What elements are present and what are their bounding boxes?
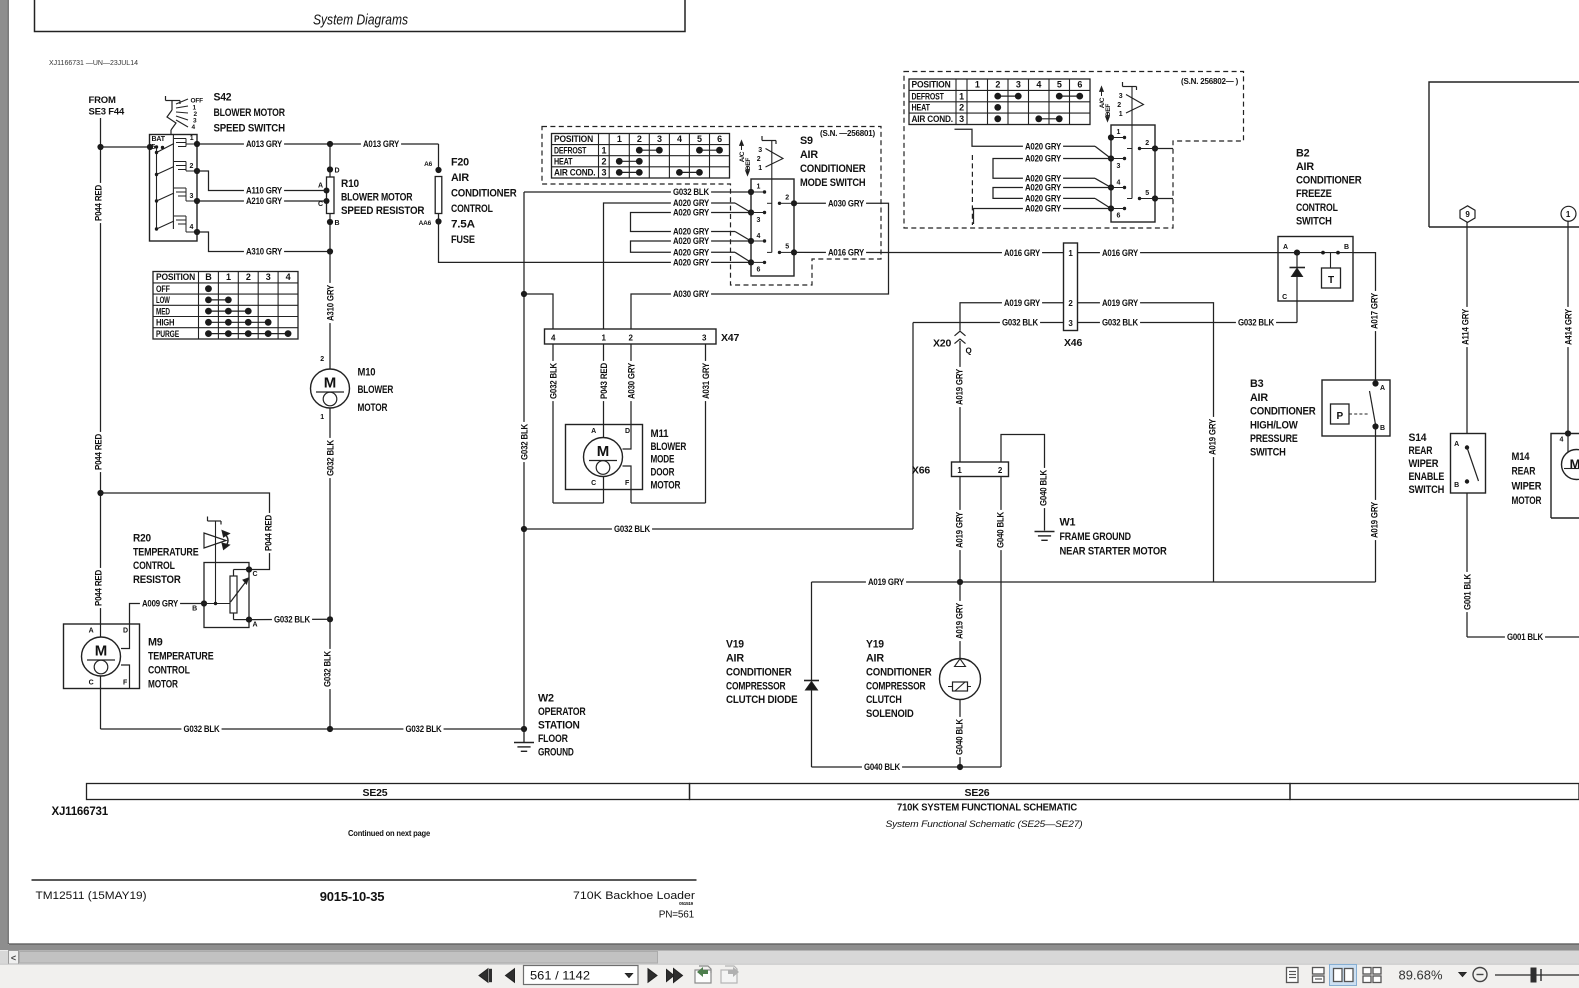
switch S42 rotary symbol [166, 100, 181, 102]
toolbar scrolling icon [1313, 968, 1325, 975]
wire S9 late A020 U pin4-pin6 [993, 188, 1111, 199]
svg-text:2: 2 [637, 134, 642, 144]
terminal S9 late pin1 [1108, 134, 1114, 140]
svg-text:M: M [1570, 457, 1579, 472]
wire M11 C to G032 [603, 477, 605, 504]
wire G032 BLK main vertical [523, 192, 525, 729]
svg-text:X20: X20 [933, 338, 951, 350]
svg-text:G032 BLK: G032 BLK [1002, 318, 1039, 328]
svg-text:2: 2 [757, 156, 761, 163]
svg-text:TEMPERATURE: TEMPERATURE [148, 651, 214, 663]
svg-text:1: 1 [226, 272, 231, 282]
svg-text:A: A [591, 428, 596, 435]
terminal S9 late pin6 [1108, 205, 1114, 211]
terminal S9 early pin2 [791, 200, 797, 206]
wire A019 GRY horizontal [812, 581, 1376, 583]
svg-text:B: B [205, 272, 212, 282]
wire B2 C to G032 [1296, 301, 1298, 323]
svg-text:G040 BLK: G040 BLK [995, 511, 1005, 548]
svg-text:SWITCH: SWITCH [1296, 216, 1332, 228]
svg-text:REAR: REAR [1512, 466, 1536, 478]
svg-text:1: 1 [601, 145, 606, 155]
svg-text:2: 2 [959, 103, 964, 113]
svg-text:A019 GRY: A019 GRY [954, 369, 964, 405]
connector X47 [545, 329, 717, 344]
motor M11 [584, 438, 623, 477]
svg-text:DEF: DEF [1105, 104, 1112, 117]
svg-text:System Functional Schematic: System Functional Schematic (SE25—SE27) [886, 819, 1083, 830]
svg-text:M14: M14 [1512, 451, 1530, 463]
svg-text:A6: A6 [424, 161, 432, 168]
wire F20 to S9 pin6 A020 GRY [439, 214, 752, 263]
svg-text:RESISTOR: RESISTOR [133, 574, 181, 586]
svg-text:G032 BLK: G032 BLK [183, 724, 220, 734]
wire M9 D internal [121, 624, 130, 649]
toolbar two page scrolling icon [1363, 968, 1371, 975]
svg-text:A: A [253, 622, 258, 629]
terminal R10 A [324, 188, 330, 194]
svg-text:F20: F20 [451, 157, 469, 169]
svg-text:G032 BLK: G032 BLK [519, 423, 529, 460]
header rule box [35, 0, 686, 32]
switch S9 late box [1111, 125, 1155, 222]
scrollbar thumb [20, 952, 658, 964]
svg-text:9015-10-35: 9015-10-35 [320, 889, 385, 904]
svg-text:89.68%: 89.68% [1399, 969, 1443, 983]
toolbar two page icon highlighted [1330, 965, 1357, 986]
junction P044/S42 [97, 144, 103, 150]
svg-text:A: A [318, 183, 323, 190]
svg-text:C: C [1282, 294, 1287, 301]
junction G032 bottom [327, 726, 333, 732]
terminal R20 B [201, 600, 207, 606]
svg-text:CLUTCH: CLUTCH [866, 694, 902, 706]
svg-text:5: 5 [697, 134, 702, 144]
wire A310 GRY [197, 232, 330, 252]
svg-text:BLOWER MOTOR: BLOWER MOTOR [341, 192, 413, 204]
svg-text:710K SYSTEM FUNCTIONAL SCHEMAT: 710K SYSTEM FUNCTIONAL SCHEMATIC [897, 802, 1078, 814]
svg-text:A020 GRY: A020 GRY [1025, 183, 1061, 193]
switch S42 internal rail [156, 147, 158, 229]
svg-text:A017 GRY: A017 GRY [1369, 293, 1379, 329]
wire M11 D internal [623, 425, 632, 450]
svg-text:5: 5 [1145, 190, 1149, 197]
svg-text:4: 4 [190, 224, 194, 231]
switch B3 box [1322, 380, 1390, 436]
svg-text:M: M [324, 375, 337, 392]
svg-text:HEAT: HEAT [554, 157, 573, 167]
svg-text:G032 BLK: G032 BLK [548, 362, 558, 399]
svg-text:2: 2 [320, 356, 324, 363]
junction A013/R10 [327, 141, 333, 147]
svg-text:G032 BLK: G032 BLK [325, 439, 335, 476]
svg-text:1: 1 [758, 165, 762, 172]
junction G032/X46 run [521, 526, 527, 532]
svg-text:DEF: DEF [745, 158, 752, 171]
svg-text:<: < [11, 953, 16, 963]
svg-text:G032 BLK: G032 BLK [1102, 318, 1139, 328]
wire S9 late A020 stub 6 [974, 209, 1112, 225]
wire A030 GRY X47-2 to S9 pin2 [631, 203, 889, 329]
toolbar zoom dropdown [1459, 973, 1466, 977]
wire M9 A internal [100, 624, 102, 637]
svg-text:B: B [1380, 425, 1385, 432]
svg-text:NEAR STARTER MOTOR: NEAR STARTER MOTOR [1060, 546, 1167, 558]
wire M9 C to ground [100, 676, 102, 729]
svg-text:OPERATOR: OPERATOR [538, 706, 586, 718]
svg-text:A020 GRY: A020 GRY [673, 258, 709, 268]
svg-text:A019 GRY: A019 GRY [1004, 298, 1040, 308]
wire M11 F to A031 [630, 490, 632, 504]
dashed enclosure S9 late [904, 72, 1244, 229]
svg-text:POSITION: POSITION [912, 80, 951, 90]
terminal M14 4 [1565, 430, 1571, 436]
switch S9 late rotary symbol [1123, 86, 1137, 88]
ground W2 symbol [523, 729, 525, 743]
svg-text:G032 BLK: G032 BLK [274, 615, 311, 625]
ground W1 symbol [1035, 531, 1055, 533]
svg-text:D: D [123, 628, 128, 635]
svg-text:AIR: AIR [1296, 161, 1314, 173]
connector circle 1 [1561, 206, 1576, 221]
svg-text:A020 GRY: A020 GRY [673, 208, 709, 218]
thermal element B2 T [1322, 268, 1341, 288]
toolbar background [0, 964, 1579, 988]
toolbar next view button [721, 970, 737, 983]
wire G032 BLK bottom run [101, 728, 525, 730]
svg-text:R20: R20 [133, 533, 151, 545]
svg-text:XJ1166731 —UN—23JUL14: XJ1166731 —UN—23JUL14 [49, 58, 138, 67]
wire P044 RED vertical [100, 118, 102, 624]
svg-text:2: 2 [190, 163, 194, 170]
connector hexagon 9 [1460, 206, 1475, 223]
svg-text:SPEED RESISTOR: SPEED RESISTOR [341, 205, 425, 217]
junction G032/W2 [521, 726, 527, 732]
svg-text:B3: B3 [1250, 378, 1264, 390]
svg-text:M: M [95, 643, 108, 660]
svg-text:3: 3 [1119, 93, 1123, 100]
svg-text:MED: MED [156, 306, 170, 316]
switch S9 late AC-DEF arrows [1100, 87, 1104, 92]
terminal F20 A6 [435, 167, 441, 173]
wire A019 GRY B3 down [1375, 428, 1377, 582]
terminal B3 B [1372, 423, 1378, 429]
svg-text:1: 1 [617, 134, 622, 144]
svg-text:V19: V19 [726, 639, 744, 651]
svg-text:AIR: AIR [451, 172, 469, 184]
wire A019 GRY to Y19 [959, 582, 961, 659]
svg-text:SOLENOID: SOLENOID [866, 708, 914, 720]
svg-text:A016 GRY: A016 GRY [1004, 248, 1040, 258]
svg-text:A019 GRY: A019 GRY [954, 603, 964, 639]
wire G032 BLK below X47 pin4 [552, 344, 554, 503]
section bar SE27 [1290, 784, 1579, 800]
svg-text:FROM: FROM [89, 95, 116, 106]
svg-text:AIR: AIR [800, 149, 818, 161]
svg-text:HIGH/LOW: HIGH/LOW [1250, 419, 1298, 431]
svg-text:1: 1 [190, 135, 194, 142]
svg-text:1: 1 [959, 91, 964, 101]
wire M11 F internal [623, 466, 632, 490]
section bar SE25 [87, 784, 690, 800]
svg-text:B: B [192, 606, 197, 613]
svg-text:ENABLE: ENABLE [1409, 471, 1445, 483]
svg-text:3: 3 [1016, 80, 1021, 90]
svg-text:A019 GRY: A019 GRY [1369, 502, 1379, 538]
svg-text:G032 BLK: G032 BLK [405, 724, 442, 734]
svg-text:FLOOR: FLOOR [538, 733, 568, 745]
switch B3 blade [1370, 391, 1376, 425]
svg-text:A019 GRY: A019 GRY [954, 512, 964, 548]
svg-text:SE3 F44: SE3 F44 [89, 107, 125, 118]
toolbar first page button [479, 969, 488, 982]
connector X66 [952, 462, 1009, 477]
svg-text:710K Backhoe Loader: 710K Backhoe Loader [573, 890, 695, 902]
terminal S9 early pin5 [791, 249, 797, 255]
svg-text:BAT: BAT [152, 136, 166, 143]
terminal S9 late pin3 [1108, 155, 1114, 161]
terminal R10 D [327, 166, 333, 172]
svg-text:S9: S9 [800, 135, 813, 147]
wire A013 GRY [197, 143, 330, 145]
motor M14 box [1551, 434, 1579, 519]
svg-text:X47: X47 [721, 332, 739, 344]
svg-text:BLOWER: BLOWER [651, 441, 687, 453]
svg-text:CLUTCH DIODE: CLUTCH DIODE [726, 694, 797, 706]
wire A016 GRY X46 to B2 [1078, 252, 1298, 254]
connector X20 [955, 331, 966, 336]
svg-text:2: 2 [995, 80, 1000, 90]
svg-text:5: 5 [1057, 80, 1062, 90]
svg-text:A020 GRY: A020 GRY [673, 248, 709, 258]
wire A020 GRY U pin4-pin6 [631, 241, 752, 252]
wire P043 RED below X47 pin1 [603, 344, 605, 439]
toolbar last page button [667, 970, 675, 982]
resistor R20 motor-adjust symbol [208, 520, 222, 522]
svg-text:HIGH: HIGH [156, 318, 174, 328]
svg-text:1: 1 [1119, 111, 1123, 118]
svg-text:WIPER: WIPER [1409, 458, 1439, 470]
svg-text:P: P [1336, 411, 1343, 422]
svg-text:C: C [89, 680, 94, 687]
svg-text:A016 GRY: A016 GRY [1102, 248, 1138, 258]
svg-text:A210 GRY: A210 GRY [246, 196, 282, 206]
svg-text:A: A [1283, 244, 1288, 251]
svg-text:CONTROL: CONTROL [1296, 202, 1338, 214]
wire A020 GRY U pin3-pin4 [631, 213, 752, 232]
toolbar zoom slider [1495, 974, 1579, 976]
wire S9 late pin2 stub [1155, 148, 1173, 150]
wire G032 BLK run to X46 [524, 528, 913, 530]
svg-text:G040 BLK: G040 BLK [954, 718, 964, 755]
left grey sidebar [0, 0, 8, 950]
svg-text:SWITCH: SWITCH [1409, 484, 1445, 496]
svg-text:DOOR: DOOR [651, 467, 675, 479]
svg-text:CONDITIONER: CONDITIONER [1296, 175, 1362, 187]
svg-text:A020 GRY: A020 GRY [1025, 194, 1061, 204]
switch S42 pole 3 [155, 199, 158, 202]
svg-text:X66: X66 [912, 465, 930, 477]
svg-text:4: 4 [192, 124, 196, 131]
svg-text:MOTOR: MOTOR [1512, 495, 1542, 507]
terminal R20 C [246, 566, 252, 572]
svg-text:W2: W2 [538, 693, 554, 705]
svg-text:A030 GRY: A030 GRY [673, 289, 709, 299]
svg-text:CONTROL: CONTROL [451, 203, 493, 215]
svg-text:T: T [1328, 275, 1334, 286]
section bar SE26 [690, 784, 1291, 800]
toolbar prev page button [506, 969, 515, 982]
resistor R20 box [204, 563, 249, 628]
terminal S9 early pin1 [748, 189, 754, 195]
svg-text:4: 4 [757, 233, 761, 240]
svg-text:TEMPERATURE: TEMPERATURE [133, 546, 199, 558]
svg-text:MODE SWITCH: MODE SWITCH [800, 177, 866, 189]
svg-text:PURGE: PURGE [156, 329, 179, 339]
junction A310/M10 [327, 248, 333, 254]
svg-text:P044 RED: P044 RED [93, 569, 103, 606]
svg-text:DEFROST: DEFROST [554, 145, 587, 155]
svg-text:D: D [335, 168, 340, 175]
wire A110 GRY [197, 171, 327, 191]
svg-text:G040 BLK: G040 BLK [1038, 469, 1048, 506]
wire P044 branch to R20 [101, 493, 270, 570]
switch S14 blade [1467, 448, 1479, 482]
wire G032 BLK X46 right [1078, 322, 1298, 324]
svg-text:3: 3 [657, 134, 662, 144]
svg-text:A: A [1380, 385, 1385, 392]
motor M14 circle [1562, 450, 1579, 480]
svg-text:Q: Q [966, 347, 972, 356]
wire A019 GRY X20 to X66 [959, 341, 961, 462]
toolbar next page button [648, 969, 657, 982]
svg-text:MOTOR: MOTOR [148, 679, 178, 691]
svg-text:DEFROST: DEFROST [912, 91, 945, 101]
switch B2 contacts [1297, 252, 1353, 254]
svg-text:A030 GRY: A030 GRY [828, 199, 864, 209]
wire P044 to S42 BAT [101, 146, 151, 148]
svg-text:AIR: AIR [866, 652, 884, 664]
svg-text:G032 BLK: G032 BLK [322, 650, 332, 687]
svg-text:4: 4 [1117, 180, 1121, 187]
svg-text:System Diagrams: System Diagrams [313, 13, 408, 29]
toolbar previous view button [695, 970, 711, 983]
svg-text:COMPRESSOR: COMPRESSOR [866, 680, 926, 692]
svg-text:POSITION: POSITION [156, 272, 195, 282]
motor M11 box [566, 425, 643, 490]
junction A019 [957, 579, 963, 585]
svg-text:A020 GRY: A020 GRY [673, 227, 709, 237]
svg-text:C: C [253, 571, 258, 578]
svg-text:2: 2 [601, 157, 606, 167]
diode B2 [1296, 253, 1298, 268]
toolbar zoom out icon [1473, 968, 1487, 982]
svg-text:(S.N. —256801): (S.N. —256801) [820, 129, 876, 138]
junction G040 [957, 764, 963, 770]
svg-text:CONDITIONER: CONDITIONER [800, 163, 866, 175]
svg-text:A020 GRY: A020 GRY [1025, 204, 1061, 214]
svg-text:6: 6 [757, 267, 761, 274]
svg-text:G032 BLK: G032 BLK [1238, 318, 1275, 328]
wire A114 GRY [1466, 222, 1468, 434]
svg-text:2: 2 [785, 195, 789, 202]
wire R20 C internal [234, 569, 250, 571]
svg-text:A310 GRY: A310 GRY [325, 285, 335, 321]
scrollbar left button [9, 951, 19, 965]
svg-text:3: 3 [266, 272, 271, 282]
svg-text:B: B [1344, 244, 1349, 251]
terminal S9 early pin4 [748, 238, 754, 244]
svg-text:PRESSURE: PRESSURE [1250, 433, 1298, 445]
svg-text:2: 2 [1145, 140, 1149, 147]
svg-text:3: 3 [959, 114, 964, 124]
svg-text:LOW: LOW [156, 295, 170, 305]
svg-text:B2: B2 [1296, 147, 1310, 159]
svg-text:A019 GRY: A019 GRY [868, 577, 904, 587]
wire A210 GRY [197, 200, 327, 202]
motor M9 box [64, 624, 140, 689]
svg-text:3: 3 [190, 193, 194, 200]
frame top right box [1429, 82, 1579, 227]
junction G032/X47-4 [521, 291, 527, 297]
svg-text:4: 4 [1036, 80, 1041, 90]
svg-text:051519: 051519 [679, 901, 694, 906]
svg-text:P044 RED: P044 RED [93, 184, 103, 221]
svg-text:WIPER: WIPER [1512, 481, 1542, 493]
wire R20 B internal [204, 603, 230, 605]
svg-text:CONDITIONER: CONDITIONER [866, 666, 932, 678]
svg-text:B: B [335, 220, 340, 227]
svg-text:M: M [597, 443, 610, 460]
svg-text:SE26: SE26 [965, 787, 990, 799]
svg-text:CONDITIONER: CONDITIONER [726, 666, 792, 678]
svg-text:MOTOR: MOTOR [651, 480, 681, 492]
terminal S9 early pin6 [748, 259, 754, 265]
pressure element B3 P [1331, 404, 1350, 424]
svg-text:PN=561: PN=561 [659, 910, 695, 921]
terminal S42 BAT [147, 144, 153, 150]
svg-text:FUSE: FUSE [451, 234, 475, 246]
wire A019 GRY X66 to junction [959, 477, 961, 583]
junction P044/R20 branch [97, 490, 103, 496]
svg-text:A110 GRY: A110 GRY [246, 186, 282, 196]
svg-text:CONDITIONER: CONDITIONER [451, 188, 517, 200]
svg-text:POSITION: POSITION [554, 134, 593, 144]
wire A016 GRY S9 to X46 [794, 251, 1064, 253]
wire S9 late A020 U pin3-pin4 [993, 159, 1111, 179]
wire A019 GRY X46 right [1078, 303, 1214, 582]
svg-text:COMPRESSOR: COMPRESSOR [726, 680, 786, 692]
wire G040 BLK Y19 down [959, 700, 961, 768]
wire A031 GRY below X47 pin3 [705, 344, 707, 503]
svg-text:OFF: OFF [191, 98, 204, 105]
resistor R10 [327, 177, 335, 214]
svg-text:B: B [1454, 482, 1459, 489]
solenoid Y19 symbol [940, 659, 981, 700]
svg-text:M11: M11 [651, 428, 669, 440]
wire G040 BLK X66-2 down [1000, 477, 1002, 768]
wire G040 BLK X66-2 up to W1 [1001, 435, 1045, 531]
svg-text:FRAME GROUND: FRAME GROUND [1060, 531, 1132, 543]
svg-text:6: 6 [1077, 80, 1082, 90]
wire G032 to S9 pin1 [524, 191, 751, 193]
svg-text:A: A [1454, 441, 1459, 448]
svg-text:A019 GRY: A019 GRY [1102, 298, 1138, 308]
switch S42 pole 4 [155, 227, 158, 230]
svg-text:A009 GRY: A009 GRY [142, 599, 178, 609]
wire G040 BLK bottom [812, 766, 1002, 768]
svg-text:3: 3 [1117, 163, 1121, 170]
